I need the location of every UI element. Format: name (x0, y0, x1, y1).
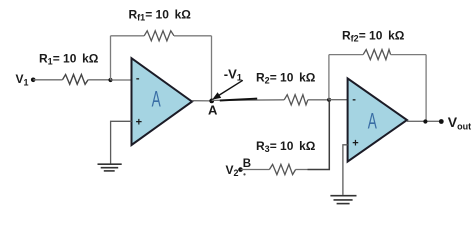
terminal Vout (439, 119, 444, 124)
svg-text:B: B (243, 158, 251, 170)
wire feedback 2 left vertical (328, 55, 330, 100)
svg-text:A: A (208, 103, 218, 118)
op-amp U2 (348, 78, 407, 161)
wire R2 to junction 2 (308, 99, 329, 101)
wire R1 to junction 1 (88, 79, 110, 81)
wire feedback 1 top left segment (111, 35, 145, 37)
svg-text:+: + (352, 137, 358, 149)
svg-text:-: - (352, 94, 356, 106)
junction feedback 2 at output (423, 119, 427, 123)
wire node A to R2 (212, 99, 285, 102)
wire V1 to R1 (33, 79, 62, 81)
annotation arrow pointing to node A (212, 80, 243, 99)
svg-text:A: A (152, 86, 162, 111)
resistor R2 (284, 95, 308, 105)
wire op-amp 1 output to node A (192, 100, 212, 102)
wire op-amp 1 plus input to ground (111, 121, 132, 163)
junction node 2 (inverting input stage 2) (327, 98, 331, 102)
svg-text:A: A (368, 108, 378, 133)
resistor R3 (269, 164, 295, 174)
annotation line over wire at node A (220, 99, 257, 101)
wire junction 1 to op-amp 1 minus input (111, 79, 132, 81)
terminal V1 (31, 78, 36, 83)
wire op-amp 2 output to Vout (407, 120, 441, 122)
wire R3 to corner (296, 169, 308, 171)
wire feedback 2 top right segment (391, 54, 427, 56)
terminal V2 (238, 167, 243, 172)
resistor Rf1 (144, 31, 174, 41)
node A junction (209, 99, 214, 104)
wire V2 to R3 (241, 169, 270, 171)
wire feedback 1 top right segment (174, 35, 212, 37)
wire op-amp 2 plus input to ground (343, 145, 348, 195)
ground (stage 2) (330, 196, 356, 204)
resistor R1 (63, 75, 89, 85)
wire feedback 2 top left segment (329, 54, 363, 56)
op-amp U1 (132, 58, 193, 145)
wire junction 2 to op-amp 2 minus input (329, 99, 348, 101)
stray dot under B (243, 173, 245, 175)
wire feedback 2 right vertical (425, 55, 427, 122)
ground (stage 1) (98, 164, 122, 171)
resistor Rf2 (363, 50, 390, 60)
svg-text:-: - (136, 73, 140, 85)
junction node 1 (inverting input stage 1) (108, 78, 112, 82)
wire feedback 1 right vertical (211, 36, 213, 101)
svg-text:+: + (136, 117, 142, 129)
wire feedback 1 left vertical (110, 36, 112, 80)
wire corner segment (dark) (308, 100, 330, 170)
